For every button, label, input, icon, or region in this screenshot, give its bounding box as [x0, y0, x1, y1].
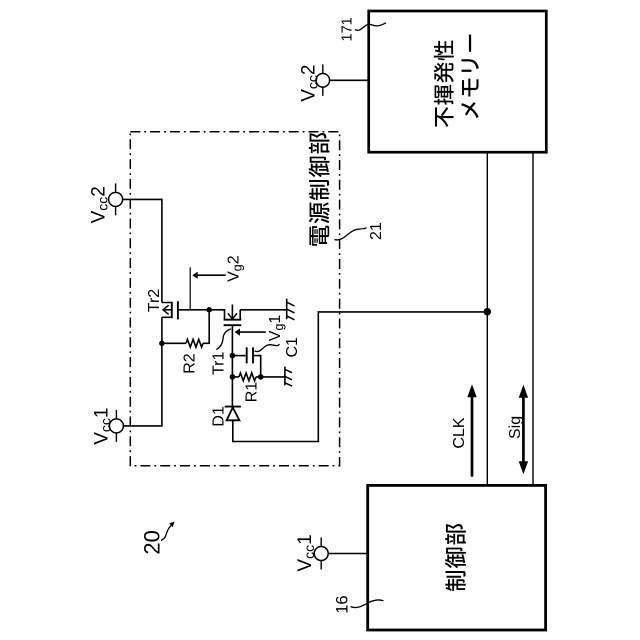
leader 16: [351, 600, 384, 608]
svg-text:R2: R2: [182, 353, 199, 374]
wire: Vcc1 to control box: [328, 553, 368, 555]
block: non-volatile memory box 171: [369, 11, 547, 152]
power terminal Vcc2 (left): [109, 192, 123, 206]
svg-text:21: 21: [368, 222, 385, 240]
wire: Tr2 gate lead to node A: [178, 309, 209, 311]
junction dot C1/R1: [258, 374, 264, 380]
capacitor C1: [232, 355, 245, 357]
svg-text:R1: R1: [244, 382, 261, 403]
transistor Tr2: [162, 303, 172, 318]
svg-text:Sig: Sig: [507, 416, 524, 439]
arrow CLK (up): [471, 396, 474, 477]
svg-text:Tr1: Tr1: [211, 351, 228, 375]
arrow Sig (double): [522, 397, 525, 463]
node Vg2 gate stub: [189, 267, 191, 309]
label arrow Vg1: [240, 331, 266, 333]
svg-text:C1: C1: [284, 337, 301, 358]
dash-dot boundary: power supply control unit 21: [130, 132, 339, 466]
leader C1: [255, 344, 280, 351]
svg-text:16: 16: [333, 595, 351, 613]
label arrow Vg2: [197, 274, 225, 276]
label: power supply control unit text: [309, 133, 330, 246]
wire: Tr2 drain down to Vcc1: [123, 317, 161, 426]
block: control unit box 16: [368, 485, 546, 630]
resistor R2: [162, 342, 186, 344]
junction dot on bus line 1: [484, 308, 492, 316]
leader Tr1: [216, 329, 231, 350]
label: non-volatile memory text line 1: [434, 41, 454, 127]
leader 171: [355, 23, 386, 31]
junction dot on Tr2 drain line: [159, 341, 165, 347]
ground (R1/C1 side): [284, 367, 286, 386]
diode D1: [225, 406, 241, 408]
svg-text:20: 20: [139, 530, 164, 554]
wire: R1 to ground 2: [256, 376, 285, 378]
svg-text:171: 171: [339, 17, 355, 41]
resistor R1: [232, 376, 239, 378]
node A junction dot (Tr2 gate / R2 / Tr1): [206, 307, 212, 313]
power terminal Vcc1 (left): [109, 419, 123, 433]
junction dot gate/C1: [230, 353, 236, 359]
leader arrow 20: [161, 523, 174, 541]
leader 21: [335, 228, 367, 240]
label: non-volatile memory text line 2: [461, 35, 479, 119]
wire: Vcc2 to Tr2 source: [123, 199, 162, 302]
svg-text:CLK: CLK: [451, 417, 468, 448]
wire: bus line 1 (power/CLK) memory to control: [486, 153, 488, 486]
power terminal Vcc1 (control side): [314, 547, 328, 561]
wire: Tr1 gate lead down: [231, 325, 233, 406]
ground (Tr1 side): [286, 299, 288, 320]
wire: Vcc2 to memory box: [330, 79, 369, 81]
junction dot gate/R1: [230, 374, 236, 380]
svg-text:D1: D1: [211, 406, 228, 427]
power terminal Vcc2 (memory side): [316, 74, 330, 88]
transistor Tr1: [209, 310, 224, 319]
wire: bus line 2 (Sig) memory to control: [532, 153, 534, 486]
svg-text:Tr2: Tr2: [146, 289, 163, 313]
label: control unit text: [445, 524, 466, 591]
wire: D1 anode to output node: [233, 312, 484, 442]
